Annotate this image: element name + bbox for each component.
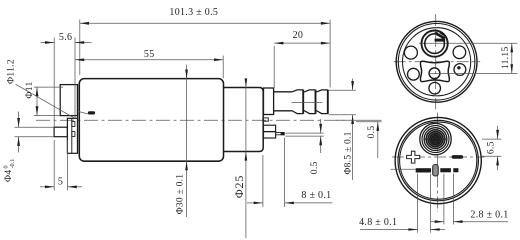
outlet fitting tube bottom (274, 110, 292, 112)
inlet boss disc (60, 85, 77, 116)
dim phi11 extension bottom (34, 115, 60, 117)
dim 0.5 offset (366, 122, 379, 158)
dim 8 (247, 190, 333, 204)
view C rim circle 2 (398, 120, 478, 200)
barb groove line (292, 101, 323, 103)
terminal pin (276, 132, 285, 135)
svg-text:11.15: 11.15 (500, 46, 511, 69)
main axis centerline (36, 119, 348, 121)
dim phi30 label (175, 174, 185, 214)
dim 2.8 (431, 210, 509, 223)
view B rim circle 2 (398, 24, 475, 101)
svg-text:6.5: 6.5 (486, 141, 497, 154)
hole right with pin (454, 64, 466, 76)
terminal block lower (264, 132, 276, 138)
outlet boss outer (422, 30, 448, 56)
inlet collar (67, 118, 77, 153)
dim phi25 label (232, 175, 246, 198)
dim 0.5 pin (309, 119, 322, 174)
outlet fitting tube top (274, 91, 292, 93)
svg-text:4.8 ± 0.1: 4.8 ± 0.1 (359, 217, 397, 228)
svg-text:Φ11: Φ11 (24, 81, 35, 98)
dim 4.8 (359, 217, 445, 231)
dim phi4 extension top (15, 126, 55, 128)
left contact bar (416, 168, 431, 172)
view B rim circle 3 (403, 28, 471, 96)
dim phi4 label (3, 159, 16, 182)
dim 6.5 extension bottom (482, 155, 502, 157)
dim 5.6 extension left (53, 38, 55, 127)
dim 20 extension left (273, 46, 275, 88)
svg-text:Φ30 ± 0.1: Φ30 ± 0.1 (175, 174, 185, 214)
svg-text:20: 20 (293, 30, 304, 41)
dim 2.8 extension left (443, 174, 445, 225)
dim phi4 (17, 112, 20, 153)
collar face slot upper (72, 122, 75, 127)
dim 2.8 extension right (452, 174, 454, 225)
dim 55 (75, 49, 223, 61)
dim 5 extension right (67, 140, 69, 191)
view C horizontal centerline (392, 156, 485, 158)
hole upper-right (453, 46, 466, 59)
dim 8 extension right (284, 138, 286, 208)
hole lower-left (408, 68, 420, 80)
dim phi11.2 leader 2 (79, 112, 89, 114)
view B vertical centerline (435, 14, 437, 110)
outlet boss centerline (419, 42, 518, 44)
leader arrowhead slot (88, 111, 95, 114)
dim 20 (274, 30, 330, 45)
dim 8 extension left (262, 155, 264, 207)
dim 101.3 extension right (329, 20, 331, 88)
dim phi11 label (24, 81, 35, 98)
dim 4.8 extension left (417, 174, 419, 233)
right contact bar B (453, 168, 458, 172)
dim phi30 (185, 65, 188, 218)
svg-text:Φ4: Φ4 (3, 170, 14, 182)
dim 5.6 extension right (74, 38, 76, 118)
svg-text:Φ25: Φ25 (232, 175, 246, 198)
svg-text:5: 5 (58, 177, 63, 188)
outlet boss wedge (435, 32, 446, 41)
dim 101.3 (80, 7, 330, 25)
armature pillow shape (420, 61, 449, 81)
dim 6.5 (486, 126, 499, 170)
dim 5.6 (41, 32, 92, 44)
inlet strainer coil (420, 123, 451, 154)
dim phi8.5 (343, 79, 354, 181)
inlet nipple Φ4 (54, 127, 67, 137)
positive terminal cross (407, 151, 420, 163)
collar inner edge (71, 118, 73, 153)
terminal block upper (264, 125, 276, 131)
dim 55 extension right (222, 56, 224, 79)
right contact bar A (440, 168, 451, 172)
outlet boss inner (425, 34, 445, 54)
dim 11.15 (500, 43, 513, 73)
body left end face (77, 84, 79, 153)
terminal pill (452, 155, 464, 159)
view B outer circle (396, 21, 477, 102)
left bar extension line (391, 168, 416, 170)
svg-text:8 ± 0.1: 8 ± 0.1 (301, 190, 331, 201)
dim phi25 (245, 78, 248, 238)
outlet barbs Φ8.5 (292, 90, 328, 114)
hole bottom (429, 82, 441, 94)
dim phi8.5 extensions (329, 90, 356, 115)
dim 6.5 extension top (482, 138, 502, 140)
dim phi11 extension top (34, 86, 63, 88)
svg-text:0.5: 0.5 (366, 126, 377, 139)
hole upper-left (404, 46, 417, 59)
svg-text:-0.1: -0.1 (9, 159, 16, 169)
dim 0.5 pin extensions (286, 133, 324, 136)
dim phi4 extension bottom (15, 136, 55, 138)
view C rim circle 3 (400, 122, 477, 199)
Φ25 end section (224, 88, 263, 152)
svg-text:101.3 ± 0.5: 101.3 ± 0.5 (169, 7, 218, 18)
dim phi11.2 label (5, 59, 16, 84)
outlet fitting flange (264, 88, 274, 115)
dim phi11 (36, 87, 39, 115)
dim 101.3 extension left (79, 20, 81, 76)
svg-text:5.6: 5.6 (59, 32, 72, 43)
collar face slot lower (72, 132, 75, 137)
pillow center hole (429, 68, 440, 79)
dim 0.5 offset extensions (336, 120, 382, 122)
view C vertical centerline (437, 113, 439, 213)
dim phi11.2 leader (16, 84, 75, 118)
svg-text:55: 55 (144, 49, 155, 60)
svg-text:Φ8.5 ± 0.1: Φ8.5 ± 0.1 (343, 131, 353, 174)
svg-text:Φ11.2: Φ11.2 (5, 59, 16, 84)
view C outer circle (395, 118, 481, 204)
center slot (433, 165, 439, 177)
dim 11.15 extension bottom (429, 72, 518, 74)
svg-text:2.8 ± 0.1: 2.8 ± 0.1 (470, 210, 508, 221)
svg-text:0.5: 0.5 (309, 161, 320, 174)
dim 5 extension left (53, 140, 55, 191)
end face tab (263, 118, 269, 121)
view B horizontal centerline (394, 61, 481, 63)
pump body Φ30 section (79, 79, 223, 162)
dim 4.8 extension right (430, 174, 432, 233)
dim 5 (40, 177, 82, 189)
